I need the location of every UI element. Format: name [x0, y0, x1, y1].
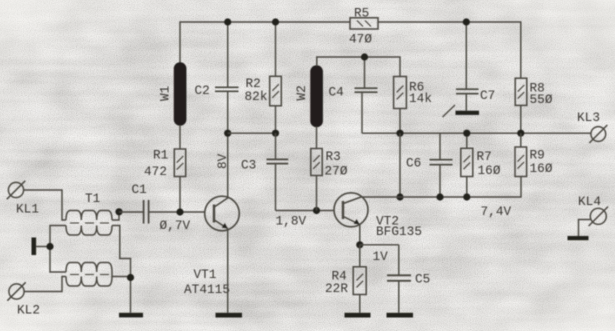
value 550	[530, 92, 553, 107]
junction dot collector/C2/R2 node	[224, 130, 231, 137]
junction dot C2 top	[224, 18, 231, 25]
label R1	[153, 148, 168, 163]
label C3	[241, 158, 256, 173]
junction dot collector line left	[396, 193, 403, 200]
svg-text:16Ø: 16Ø	[478, 163, 501, 178]
svg-text:W1: W1	[158, 86, 173, 101]
wire output line	[362, 132, 591, 134]
wire VT2 emitter down	[359, 225, 361, 245]
terminal KL3	[589, 125, 607, 143]
junction dot T1 ground tap	[46, 243, 53, 250]
svg-text:7,4V: 7,4V	[481, 204, 512, 219]
transistor VT2	[334, 193, 368, 227]
resistor R4	[353, 245, 366, 313]
value 82k	[245, 89, 268, 104]
resistor R7	[461, 133, 473, 197]
svg-text:C3: C3	[241, 158, 256, 173]
wire T1 row2-row3 left link	[50, 226, 66, 273]
label KL4	[578, 194, 601, 209]
svg-text:KL1: KL1	[16, 202, 39, 217]
svg-text:22R: 22R	[325, 281, 348, 296]
ground KL4	[568, 236, 589, 240]
label R8	[530, 81, 545, 96]
transistor VT1	[205, 196, 240, 231]
label R6	[409, 80, 424, 95]
wire T1 row2 right down	[112, 226, 131, 313]
ground input (left, rotated bar)	[32, 238, 51, 256]
wire W2 top rail	[317, 57, 400, 77]
resistor R6	[394, 77, 407, 134]
junction dot at C1 node	[115, 208, 122, 215]
label R2	[246, 76, 261, 91]
junction dot R7 top	[463, 130, 470, 137]
wire VT2 base line	[276, 210, 335, 212]
svg-text:8V: 8V	[215, 153, 230, 169]
ground T1 right	[119, 313, 143, 318]
capacitor C2	[215, 22, 239, 91]
junction dot C4 top	[361, 53, 368, 60]
label R7	[477, 149, 492, 164]
filter W2	[311, 66, 322, 127]
svg-text:KL2: KL2	[17, 303, 40, 318]
svg-text:C6: C6	[406, 156, 421, 171]
svg-text:R3: R3	[326, 149, 341, 164]
label BFG135	[376, 224, 422, 239]
value 22R	[325, 281, 348, 296]
resistor R3	[311, 149, 322, 211]
value 160	[530, 161, 553, 176]
svg-text:BFG135: BFG135	[376, 224, 422, 239]
svg-text:T1: T1	[85, 191, 100, 206]
junction dot R1/base	[176, 208, 183, 215]
label C6	[406, 156, 421, 171]
svg-text:1,8V: 1,8V	[276, 214, 307, 229]
svg-text:47Ø: 47Ø	[349, 32, 372, 47]
svg-text:W2: W2	[294, 85, 309, 100]
label VT1	[194, 267, 217, 282]
svg-text:C1: C1	[132, 182, 147, 197]
junction dot R6 bottom	[396, 130, 403, 137]
wire W1 to R1	[179, 125, 181, 149]
value 14k	[409, 91, 432, 106]
resistor R8	[515, 78, 527, 133]
wire collector node to R2	[228, 132, 276, 134]
svg-text:R5: R5	[354, 6, 369, 21]
ground VT1 emitter	[216, 313, 243, 318]
junction dot emitter node	[356, 241, 363, 248]
wire KL1 to T1 primary	[24, 190, 66, 220]
label 8V (rotated)	[215, 153, 230, 169]
svg-text:16Ø: 16Ø	[530, 161, 553, 176]
svg-text:14k: 14k	[409, 91, 432, 106]
wire KL4 to ground	[579, 220, 591, 237]
junction dot R3 bottom	[313, 207, 320, 214]
capacitor C6	[430, 133, 453, 197]
svg-text:C2: C2	[195, 83, 210, 98]
wire top supply rail left of R5	[180, 22, 350, 63]
label C7	[480, 88, 495, 103]
svg-text:VT1: VT1	[194, 267, 217, 282]
value 270	[325, 164, 348, 179]
label C4	[329, 85, 344, 100]
wire T1 row1 right to C1 node	[112, 212, 119, 220]
junction dot C7 top	[463, 18, 470, 25]
label 1V	[373, 249, 389, 264]
label AT4115	[184, 282, 230, 297]
label W1 (rotated)	[158, 86, 173, 101]
svg-text:C7: C7	[480, 88, 495, 103]
svg-text:C4: C4	[329, 85, 344, 100]
svg-text:C5: C5	[415, 272, 430, 287]
label 1,8V	[276, 214, 307, 229]
svg-text:Ø,7V: Ø,7V	[160, 218, 191, 233]
label 7,4V	[481, 204, 512, 219]
wire emitter node to C5	[360, 244, 399, 246]
capacitor C7 (trimmer)	[443, 22, 479, 117]
value 470	[349, 32, 372, 47]
label 0.7V	[160, 218, 191, 233]
wire VT1 collector up	[227, 92, 229, 198]
label KL2	[17, 303, 40, 318]
capacitor C3	[267, 133, 289, 210]
svg-text:1V: 1V	[373, 249, 389, 264]
capacitor C1	[144, 200, 149, 224]
terminal KL2	[7, 282, 25, 300]
wire VT1 emitter down	[227, 229, 229, 313]
junction dot R2 top	[272, 18, 279, 25]
label R4	[332, 269, 347, 284]
value 160	[478, 163, 501, 178]
transformer T1	[66, 211, 112, 287]
label VT2	[376, 214, 399, 229]
junction dot R2 bottom	[272, 130, 279, 137]
terminal KL1	[7, 181, 25, 199]
resistor R1	[174, 149, 185, 177]
svg-text:82k: 82k	[245, 89, 268, 104]
capacitor C4	[355, 57, 378, 133]
label W2 (rotated)	[294, 85, 309, 100]
label C2	[195, 83, 210, 98]
label T1	[85, 191, 100, 206]
svg-text:R7: R7	[477, 149, 492, 164]
wire T1 row3/4 right stubs	[112, 272, 131, 277]
svg-text:KL3: KL3	[577, 110, 600, 125]
label C5	[415, 272, 430, 287]
junction dot R7 bottom	[463, 193, 470, 200]
terminal KL4	[589, 207, 608, 226]
label R5	[354, 6, 369, 21]
junction dot C6 bottom	[436, 193, 443, 200]
label C1	[132, 182, 147, 197]
wire KL2 to T1 winding	[24, 277, 66, 292]
wire W2 to R3	[316, 127, 318, 149]
resistor R2	[270, 22, 282, 133]
label KL3	[577, 110, 600, 125]
svg-text:R1: R1	[153, 148, 168, 163]
filter W1	[175, 63, 186, 125]
wire C1 left	[119, 211, 143, 213]
junction dot R8 bottom	[517, 130, 524, 137]
value 472	[144, 164, 167, 179]
wire R1 to base node	[179, 177, 181, 213]
wire top supply rail right of R5	[378, 22, 521, 78]
ground C7 (thick plate)	[456, 111, 480, 115]
wire VT2 collector line	[361, 177, 521, 198]
svg-text:55Ø: 55Ø	[530, 92, 553, 107]
wire R6 node down to collector line	[399, 133, 401, 197]
capacitor C5	[387, 245, 411, 313]
ground C5	[387, 313, 414, 318]
wire VT1 base line	[149, 211, 205, 213]
resistor R9	[515, 133, 527, 176]
ground R4	[345, 313, 371, 318]
label R9	[530, 148, 545, 163]
svg-text:KL4: KL4	[578, 194, 601, 209]
svg-text:27Ø: 27Ø	[325, 164, 348, 179]
label KL1	[16, 202, 39, 217]
junction dot T1 right	[127, 274, 134, 281]
label R3	[326, 149, 341, 164]
resistor R5	[350, 18, 378, 29]
svg-text:AT4115: AT4115	[184, 282, 230, 297]
svg-text:472: 472	[144, 164, 167, 179]
